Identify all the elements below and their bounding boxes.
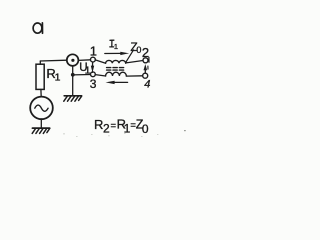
svg-text:=: = — [111, 121, 117, 132]
svg-text:4: 4 — [144, 78, 150, 90]
svg-text:3: 3 — [90, 77, 97, 91]
svg-text:2: 2 — [142, 45, 149, 60]
svg-text:1: 1 — [114, 42, 118, 51]
svg-text:2: 2 — [103, 122, 110, 136]
svg-text:0: 0 — [142, 122, 149, 136]
svg-text:1: 1 — [55, 71, 61, 83]
svg-text:R: R — [94, 117, 103, 132]
svg-text:1: 1 — [90, 44, 97, 59]
svg-text:1: 1 — [85, 64, 91, 76]
svg-text:0: 0 — [136, 45, 141, 55]
